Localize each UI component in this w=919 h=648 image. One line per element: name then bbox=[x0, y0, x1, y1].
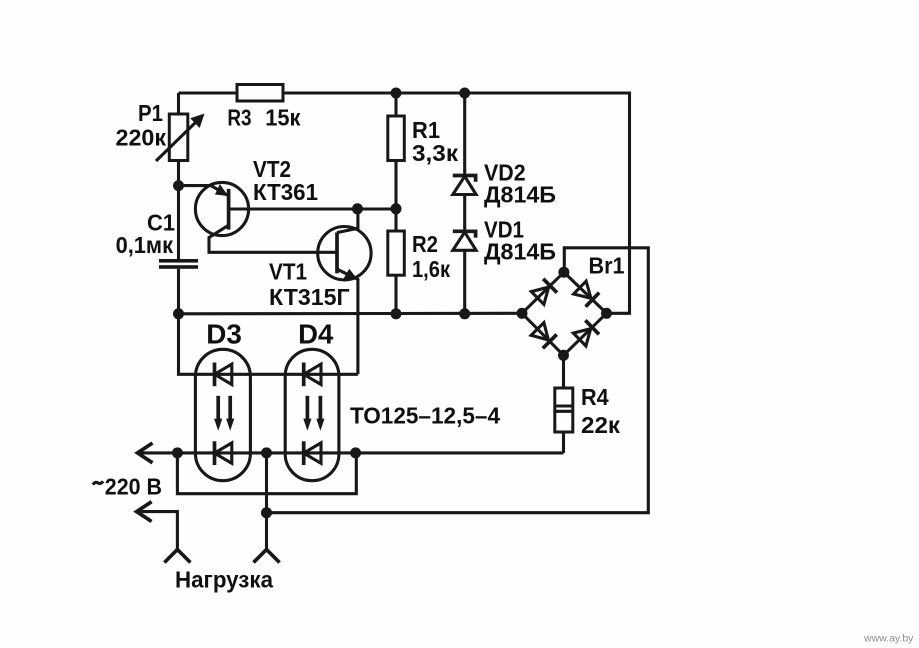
wire lower frame under D3 D4 bbox=[177, 453, 356, 494]
node cathode left bbox=[172, 447, 183, 458]
svg-text:220 В: 220 В bbox=[105, 474, 162, 500]
bridge diode upper-right bbox=[574, 281, 600, 307]
svg-text:Д814Б: Д814Б bbox=[484, 239, 556, 265]
svg-text:VT1: VT1 bbox=[269, 259, 307, 285]
load fork center bbox=[254, 550, 280, 563]
transistor VT2 bbox=[179, 182, 336, 252]
zener VD2 bbox=[453, 93, 476, 231]
D4 gate diode bbox=[304, 363, 321, 387]
bridge diode upper-left bbox=[531, 279, 557, 305]
svg-text:D4: D4 bbox=[298, 319, 334, 350]
svg-text:3,3к: 3,3к bbox=[412, 140, 459, 166]
node bus R2 bbox=[391, 308, 402, 319]
wire C1 bottom to bus bbox=[177, 269, 180, 314]
node bridge left bbox=[517, 308, 528, 319]
node bridge top bbox=[558, 267, 569, 278]
node bridge right bbox=[601, 308, 612, 319]
svg-text:www.ay.by: www.ay.by bbox=[863, 633, 914, 645]
svg-text:Нагрузка: Нагрузка bbox=[175, 567, 273, 593]
svg-text:R3: R3 bbox=[227, 104, 251, 130]
transistor VT1 bbox=[318, 209, 371, 374]
node R1 top bbox=[391, 88, 402, 99]
node bus left bbox=[173, 308, 184, 319]
label ~220 V bbox=[93, 481, 103, 484]
node zener top bbox=[459, 88, 470, 99]
wire gate line through D3 D4 top diodes bbox=[179, 314, 358, 375]
bridge diode lower-right bbox=[573, 320, 599, 346]
thyristor D4 body bbox=[285, 349, 339, 480]
capacitor C1 bbox=[159, 259, 198, 269]
resistor R4 bbox=[555, 355, 573, 453]
wire top bus from P1 top to right corner, down to bridge right vertex bbox=[179, 93, 630, 313]
svg-text:0,1мк: 0,1мк bbox=[116, 232, 174, 258]
svg-text:КТ361: КТ361 bbox=[253, 179, 318, 205]
D3 cathode diode bbox=[215, 441, 232, 465]
wire P1 bottom to node bbox=[177, 161, 180, 260]
svg-text:КТ315Г: КТ315Г bbox=[269, 284, 350, 310]
terminal arrow 220V lower bbox=[137, 502, 178, 553]
potentiometer P1 bbox=[156, 114, 205, 162]
svg-text:1,6к: 1,6к bbox=[412, 256, 450, 282]
node cathode mid bbox=[261, 447, 272, 458]
D4 light arrows bbox=[303, 396, 324, 431]
D3 gate diode bbox=[215, 363, 232, 387]
bridge Br1 frame wires bbox=[267, 248, 649, 513]
resistor R2 bbox=[388, 209, 405, 314]
wire mid bus bbox=[179, 312, 523, 316]
svg-text:Д814Б: Д814Б bbox=[484, 182, 556, 208]
resistor R3 bbox=[237, 85, 283, 102]
bridge diode lower-left bbox=[531, 323, 557, 349]
svg-text:22к: 22к bbox=[581, 412, 620, 438]
wire left branch: top corner down to P1 bbox=[177, 93, 180, 114]
resistor R1 bbox=[388, 93, 405, 209]
svg-text:15к: 15к bbox=[265, 104, 301, 130]
node cathode right bbox=[350, 447, 361, 458]
node VT1 collector / base wire bbox=[352, 203, 363, 214]
wire load branch center bbox=[265, 453, 268, 553]
D4 cathode diode bbox=[304, 441, 321, 465]
D3 light arrows bbox=[214, 396, 234, 431]
svg-text:D3: D3 bbox=[206, 319, 242, 350]
node P1/VT2 emitter bbox=[173, 180, 184, 191]
wire VT2 base to R1/R2 junction bbox=[229, 207, 396, 210]
zener VD1 bbox=[453, 231, 476, 313]
svg-text:ТО125–12,5–4: ТО125–12,5–4 bbox=[350, 403, 500, 429]
wire cathode line with left terminal bbox=[138, 451, 564, 454]
svg-text:R2: R2 bbox=[412, 231, 438, 257]
node bus VD1 bbox=[459, 308, 470, 319]
load fork left bbox=[164, 550, 190, 563]
thyristor D3 body bbox=[195, 349, 250, 480]
node bridge bottom bbox=[558, 350, 569, 361]
node base wire / R1 R2 bbox=[391, 203, 402, 214]
svg-text:R4: R4 bbox=[581, 384, 609, 410]
terminal arrow 220V upper bbox=[138, 443, 153, 463]
bridge Br1 edges bbox=[522, 272, 607, 355]
svg-text:Br1: Br1 bbox=[589, 253, 625, 279]
svg-text:P1: P1 bbox=[138, 100, 163, 126]
node load line bbox=[261, 507, 272, 518]
svg-text:220к: 220к bbox=[116, 125, 167, 151]
